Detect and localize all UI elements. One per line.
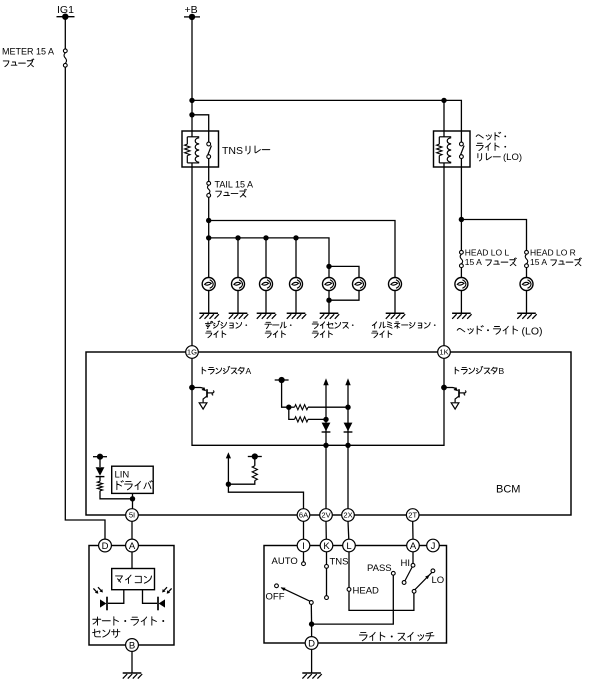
wire 6A to I: [303, 521, 305, 539]
node IG1: [57, 4, 75, 20]
junction lamp4: [293, 235, 298, 240]
label light switch: [359, 632, 433, 641]
wire LIN to 5I: [132, 493, 134, 508]
node tap upper: [275, 377, 289, 383]
wire 2X line: [345, 378, 350, 509]
transistor Q A: [189, 385, 214, 410]
ground position light 1: [199, 313, 219, 319]
switch arm OFF: [281, 587, 314, 604]
wire lamp2 drop: [237, 238, 239, 278]
label headlight relay: [476, 132, 506, 140]
svg-text:1G: 1G: [187, 348, 197, 357]
junction lamp2: [235, 235, 240, 240]
svg-text:2X: 2X: [343, 511, 352, 520]
wire pivot down: [310, 604, 312, 624]
diode D2: [344, 423, 353, 432]
lamp license light 1: [323, 278, 336, 291]
wire 2T to A: [412, 521, 414, 539]
svg-text:PASS: PASS: [367, 563, 392, 574]
connector K: [320, 539, 333, 552]
svg-text:J: J: [431, 541, 436, 552]
ground illumination light: [386, 313, 406, 319]
junction headlight relay coil: [441, 98, 446, 103]
switch arm LO: [412, 573, 432, 594]
svg-text:A: A: [246, 366, 252, 376]
lamp headlight right: [520, 278, 533, 291]
wire headlamp L ground: [460, 291, 462, 313]
wire head lo r lamp: [526, 268, 528, 278]
svg-text:A: A: [410, 541, 417, 552]
junction 2V line bottom: [323, 443, 328, 448]
wire 2V to K: [325, 521, 327, 539]
svg-text:1K: 1K: [439, 348, 448, 357]
connector 1K: [438, 346, 451, 359]
relay headlight LO: [434, 131, 471, 167]
microcomputer box: [112, 569, 155, 590]
connector 2V: [320, 509, 333, 522]
relay TNS: [182, 131, 219, 167]
label METER fuse katakana: [3, 59, 34, 67]
BCM box: [86, 352, 571, 515]
wire L to LO arm: [349, 591, 414, 610]
lamp tail light 1: [260, 278, 273, 291]
label BCM: [496, 484, 520, 496]
lamp headlight left: [455, 278, 468, 291]
resistor R LIN: [97, 477, 132, 499]
wire 2X to L: [347, 521, 350, 539]
LIN driver box: [112, 466, 154, 493]
resistor R upper: [289, 405, 348, 410]
wire lamp4 to ground: [295, 291, 297, 313]
connector J: [427, 539, 440, 552]
resistor R lower: [289, 407, 326, 422]
svg-text:(LO): (LO): [503, 152, 522, 163]
wire K lower contact: [325, 568, 329, 599]
junction R lower to 2V line: [323, 417, 328, 422]
connector A switch: [407, 539, 420, 552]
wire lamp2 to ground: [237, 291, 239, 313]
connector A sensor: [126, 539, 139, 552]
svg-text:LO: LO: [432, 575, 445, 586]
wire lamp3 drop: [265, 238, 267, 278]
wire tap to resistors: [282, 380, 289, 407]
ground sensor: [123, 673, 143, 679]
wire 5I to sensor A: [131, 521, 133, 539]
wire 2V line: [323, 378, 328, 509]
junction TNS contact feed: [189, 112, 194, 117]
label TAIL fuse katakana: [216, 189, 247, 197]
svg-text:AUTO: AUTO: [272, 556, 298, 567]
wire lamp3 to ground: [265, 291, 267, 313]
label auto light sensor: [93, 617, 164, 626]
resistor R 6A: [228, 457, 257, 485]
wire TNS contact feed: [192, 115, 209, 142]
fuse METER 15 A: [2, 46, 67, 67]
svg-text:L: L: [346, 541, 351, 552]
svg-text:2T: 2T: [408, 511, 417, 520]
contact LO: [431, 569, 444, 586]
connector 5I: [126, 509, 139, 522]
junction tail rail: [206, 235, 211, 240]
wire 1G internal: [192, 358, 444, 445]
contact PASS: [367, 563, 395, 575]
svg-text:B: B: [499, 366, 505, 376]
label license light: [312, 322, 353, 329]
ground light switch: [302, 673, 322, 679]
svg-text:TNS: TNS: [222, 145, 243, 157]
svg-text:I: I: [302, 541, 305, 552]
svg-text:LIN: LIN: [115, 469, 130, 480]
diode D3: [96, 457, 105, 477]
wire license left drop: [328, 266, 330, 277]
wire illumination lamp to ground: [394, 291, 396, 313]
fuse HEAD LO L: [460, 247, 510, 267]
ground position light 2: [229, 313, 249, 319]
photodiode left: [93, 587, 107, 610]
connector D switch: [305, 637, 318, 650]
wire headlight contact down: [460, 159, 462, 251]
svg-text:15 A: 15 A: [530, 257, 547, 267]
contact TNS: [325, 552, 349, 569]
photodiode right: [158, 587, 172, 610]
lamp illumination light: [389, 278, 402, 291]
junction resistor split: [286, 405, 291, 410]
wire to 6A: [228, 484, 303, 509]
wire head lo l lamp: [460, 268, 462, 278]
wire +B to headlight relay: [192, 100, 461, 142]
junction +B main: [189, 98, 194, 103]
wire lamp4 drop: [295, 238, 297, 278]
light switch box: [264, 546, 447, 644]
lamp position light 2: [232, 278, 245, 291]
junction 6A net: [226, 482, 231, 487]
svg-text:B: B: [129, 640, 135, 651]
ground license lights: [320, 313, 340, 319]
wire B to ground: [131, 651, 133, 672]
node tap 6A: [248, 453, 262, 459]
svg-text:A: A: [129, 541, 136, 552]
svg-text:TNS: TNS: [330, 556, 349, 567]
svg-text:BCM: BCM: [496, 484, 520, 496]
svg-text:5I: 5I: [129, 511, 135, 520]
wire to left photodiode: [108, 590, 124, 604]
svg-text:(LO): (LO): [522, 326, 543, 338]
wire lamp1 to ground: [208, 291, 210, 313]
junction illumination rail: [206, 218, 211, 223]
lamp license light 2: [353, 278, 366, 291]
contact AUTO: [272, 552, 306, 567]
junction 5I net: [130, 496, 135, 501]
connector 2X: [342, 509, 355, 522]
lamp tail light 2: [290, 278, 303, 291]
node +B: [184, 4, 200, 20]
wire license lamps join: [326, 291, 359, 313]
wire TNS coil to 1G: [191, 163, 193, 346]
wire A to microcomputer: [131, 552, 133, 569]
svg-text:K: K: [323, 541, 330, 552]
diode D1: [322, 423, 331, 432]
svg-text:D: D: [308, 638, 315, 649]
junction license split top: [326, 264, 331, 269]
label transistor B: [455, 366, 497, 374]
connector I: [297, 539, 310, 552]
lamp position light 1: [202, 278, 215, 291]
junction 2X line bottom: [345, 443, 350, 448]
wire IG1 to METER fuse: [64, 17, 66, 49]
junction head lo split: [459, 217, 464, 222]
wire D switch to ground: [311, 649, 313, 672]
fuse HEAD LO R: [525, 247, 576, 267]
label position light: [205, 321, 247, 329]
transistor Q B: [441, 385, 466, 410]
wire +B down to TNS relay coil: [191, 17, 193, 137]
ground tail light 2: [287, 313, 307, 319]
wire headlamp R ground: [526, 291, 528, 313]
wire TNS contact to TAIL fuse: [208, 159, 210, 182]
label illumination light: [372, 322, 435, 328]
junction lamp3: [263, 235, 268, 240]
connector D sensor: [99, 539, 112, 552]
wire TAIL fuse down: [208, 197, 210, 277]
svg-text:OFF: OFF: [266, 592, 285, 603]
ground headlight left: [452, 313, 472, 319]
wire license right branch: [329, 266, 359, 277]
contact HEAD: [347, 552, 379, 597]
svg-text:METER 15 A: METER 15 A: [2, 46, 54, 56]
label microcomputer: [116, 575, 152, 583]
wire headlight relay coil feed: [443, 100, 445, 136]
wire to HEAD LO R fuse: [461, 220, 526, 251]
wire headlight coil to 1K: [443, 163, 445, 346]
contact OFF: [266, 584, 285, 603]
svg-text:2V: 2V: [321, 511, 331, 520]
svg-text:HEAD: HEAD: [353, 585, 380, 596]
ground tail light 1: [257, 313, 277, 319]
node tap LIN: [93, 454, 107, 460]
svg-text:15 A: 15 A: [465, 257, 482, 267]
wire to right photodiode: [143, 590, 158, 604]
connector 1G: [186, 346, 199, 359]
ground headlight right: [517, 313, 537, 319]
wire IG1 fuse to sensor D: [65, 67, 105, 539]
svg-text:6A: 6A: [299, 511, 309, 520]
wire PASS down: [312, 575, 394, 624]
wire tail rail: [209, 238, 329, 266]
svg-text:HI: HI: [401, 558, 411, 569]
svg-text:D: D: [102, 541, 109, 552]
wire 6A arrow line: [226, 452, 231, 484]
connector 6A: [297, 509, 310, 522]
label headlight LO: [457, 326, 517, 335]
junction switch common: [309, 621, 314, 626]
svg-text:TAIL 15 A: TAIL 15 A: [215, 179, 254, 189]
junction R upper to 2X line: [345, 405, 350, 410]
switch arm HI: [402, 567, 412, 584]
connector L: [343, 539, 356, 552]
connector B sensor: [126, 639, 139, 652]
label tail light: [265, 322, 292, 328]
label transistor A: [202, 366, 244, 374]
wire to D switch: [311, 624, 313, 637]
auto light sensor box: [89, 546, 174, 646]
wire illumination rail: [209, 221, 395, 278]
fuse TAIL 15 A: [207, 179, 253, 197]
connector 2T: [406, 509, 419, 522]
contact HI: [401, 552, 415, 569]
